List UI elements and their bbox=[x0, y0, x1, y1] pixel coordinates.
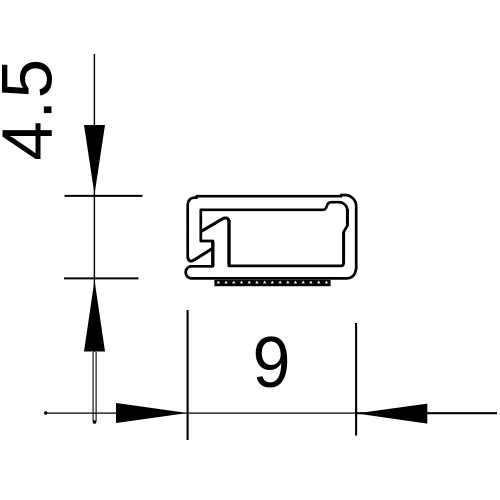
adhesive tape strip bbox=[214, 280, 330, 286]
end dot vertical bbox=[93, 420, 97, 424]
svg-text:9: 9 bbox=[252, 321, 290, 402]
vertical dimension hairline right bbox=[95, 352, 97, 422]
horizontal dimension line thick right segment bbox=[356, 412, 497, 414]
end dot horizontal bbox=[44, 411, 47, 414]
vertical dimension line bbox=[93, 54, 95, 352]
arrow right bbox=[356, 404, 427, 424]
slot right wall bbox=[227, 220, 230, 265]
pocket diagonal bbox=[188, 248, 213, 261]
arrow left bbox=[116, 403, 188, 423]
vertical dimension hairline left bbox=[92, 352, 94, 422]
arrow down bbox=[84, 125, 105, 195]
horizontal dimension line bbox=[46, 412, 356, 414]
tongue diagonal bbox=[202, 218, 229, 231]
tick bottom bbox=[64, 277, 139, 279]
dimension text 9 bbox=[252, 321, 290, 402]
profile outline (seal cross-section) bbox=[186, 195, 357, 278]
slot left wall bbox=[211, 242, 214, 266]
svg-text:4.5: 4.5 bbox=[0, 57, 68, 160]
extension line right bbox=[355, 323, 357, 436]
extension line left bbox=[187, 310, 189, 440]
inner right wall upper bbox=[346, 209, 349, 226]
arrow up bbox=[84, 280, 105, 352]
inner right wall lower bbox=[342, 232, 345, 264]
tick top bbox=[65, 195, 143, 197]
